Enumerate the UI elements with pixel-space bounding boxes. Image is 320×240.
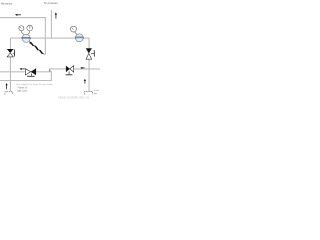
impulse zigzag line from regulator R1 to sensing point (29, 41, 44, 54)
gauge PI2 low pressure (27, 25, 33, 31)
arrow flow up from consumer frame right (84, 79, 86, 84)
wire main header pipe with corner down at right (10, 38, 89, 49)
svg-text:gas cons.: gas cons. (18, 91, 28, 93)
wire bottom-right pipe with jog stub (50, 69, 100, 72)
gauge stem right regulator (74, 32, 77, 35)
arrow flow up from consumer frame left (6, 83, 8, 89)
svg-text:Na svechu: Na svechu (1, 2, 13, 5)
gauge PI3 outlet (71, 26, 77, 32)
arrow flow left on vent line (15, 14, 21, 16)
regulator R2 body (75, 34, 84, 42)
valve V4 horizontal ball valve bottom-right (66, 66, 74, 75)
wire left feed vertical upper segment (9, 38, 11, 49)
arrow flow left on bottom-right pipe (80, 67, 85, 69)
wire bottom-left U loop pipe (0, 72, 51, 81)
svg-text:gas: gas (94, 93, 98, 95)
arrow flow left on bottom-left pipe (19, 68, 25, 70)
gauge PI1 high pressure (19, 26, 24, 31)
svg-text:Gas supply line from the gas f: Gas supply line from the gas frame (16, 83, 54, 86)
wire to-process vertical pipe (50, 10, 52, 38)
wire left feed vertical lower segment to frame boundary (9, 57, 11, 92)
frame boundary dashed bracket right (85, 91, 93, 94)
svg-text:Frame of: Frame of (18, 86, 28, 89)
regulator R1 body (21, 34, 31, 42)
valve V2 vertical needle valve right (86, 48, 95, 59)
svg-text:To process: To process (44, 1, 58, 5)
frame boundary dashed bracket left (5, 92, 13, 95)
arrow flow up to process (55, 12, 57, 18)
valve V3 horizontal ball valve bottom-left (25, 68, 36, 76)
svg-text:Gas-solutions.ru: Gas-solutions.ru (58, 95, 89, 100)
gauge stem left regulator high-pressure (21, 31, 24, 36)
wire vent line top-left with corner down at x45.4 (0, 18, 45, 55)
svg-text:Fram: Fram (94, 89, 99, 92)
valve V1 vertical needle valve left (7, 49, 15, 57)
node jog junction (49, 70, 50, 72)
wire right vertical below valve to frame boundary (88, 59, 90, 91)
gauge stem left regulator low-pressure (27, 31, 29, 35)
